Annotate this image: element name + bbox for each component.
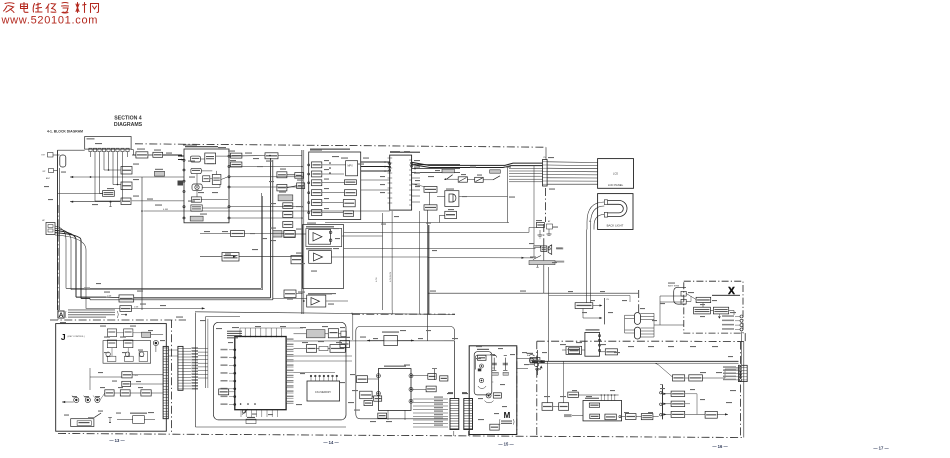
svg-text:J: J <box>61 332 66 342</box>
svg-text:L-CH: L-CH <box>376 277 378 282</box>
svg-text:A: A <box>59 312 64 319</box>
svg-text:MPX: MPX <box>348 165 354 168</box>
svg-text:(KEY CONTROL): (KEY CONTROL) <box>68 336 85 338</box>
svg-text:2.5M: 2.5M <box>134 307 139 309</box>
svg-text:BACK LIGHT: BACK LIGHT <box>607 224 624 228</box>
svg-text:CXA MEMORY: CXA MEMORY <box>315 391 332 394</box>
svg-text:4.5M: 4.5M <box>163 209 168 211</box>
svg-text:M: M <box>504 411 511 420</box>
svg-text:— 16 —: — 16 — <box>712 444 728 449</box>
svg-text:— 15 —: — 15 — <box>498 442 514 447</box>
svg-text:1.5M: 1.5M <box>107 296 112 298</box>
svg-text:SECTION 4: SECTION 4 <box>114 116 141 122</box>
svg-text:— 13 —: — 13 — <box>109 438 125 443</box>
svg-text:L-CH R-CH: L-CH R-CH <box>390 271 392 282</box>
svg-text:— 14 —: — 14 — <box>323 440 339 445</box>
svg-text:4-1. BLOCK DIAGRAM: 4-1. BLOCK DIAGRAM <box>47 130 83 134</box>
svg-text:www.520101.com: www.520101.com <box>1 15 99 27</box>
svg-text:LCD: LCD <box>613 172 618 176</box>
svg-text:LCD PANEL: LCD PANEL <box>608 183 624 187</box>
svg-text:— 17 —: — 17 — <box>873 446 889 451</box>
svg-text:DIAGRAMS: DIAGRAMS <box>114 122 143 128</box>
svg-text:REM: REM <box>134 375 139 377</box>
